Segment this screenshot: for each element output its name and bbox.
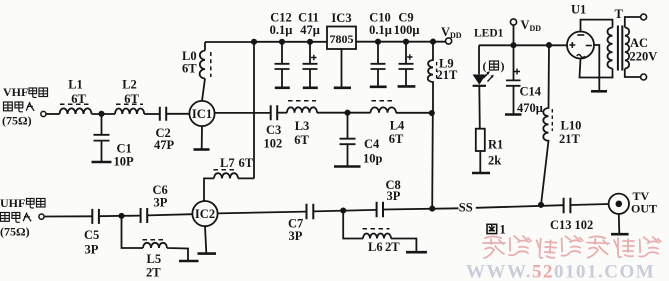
polarity plus C14 [514,69,520,75]
wire C2 to IC1 [167,113,190,115]
svg-text:3P: 3P [387,189,401,203]
svg-text:6T: 6T [71,92,86,106]
capacitor C12 [275,42,290,87]
wire VDD down [513,25,515,45]
svg-text:10p: 10p [363,152,383,166]
svg-text:V: V [521,18,530,32]
U1 plus left [569,42,575,48]
svg-text:470μ: 470μ [517,101,543,115]
ground C12 [275,87,290,90]
inductor L1 [60,108,92,114]
capacitor C6 [141,208,148,223]
junction rail L9 [430,39,436,45]
ground C9 [398,85,416,88]
svg-text:AC: AC [630,36,648,50]
capacitor C1 [94,114,110,161]
U1 minus right [586,45,592,47]
wire IC2 out to C7 [218,212,306,214]
junction node A [98,111,104,117]
op-amp IC2 [192,201,217,226]
wire T primary top [625,17,641,28]
watermark hanzi [483,235,661,258]
inductor L10 [541,45,549,205]
svg-text:VHF: VHF [3,85,28,99]
svg-text:C1: C1 [117,142,132,156]
svg-text:2T: 2T [385,240,400,254]
junction rail C10 [375,39,381,45]
svg-text:102: 102 [575,218,594,232]
node VHF input terminal [41,111,46,116]
svg-text:1: 1 [500,223,506,237]
svg-text:L2: L2 [122,78,137,92]
svg-text:L6: L6 [368,240,383,254]
wire C8 to SS [384,208,459,209]
svg-text:3P: 3P [154,196,168,210]
ground TV out [611,233,629,236]
svg-text:(75Ω): (75Ω) [2,114,32,128]
wire power rail [205,41,446,43]
wire L1 to node A [92,113,116,115]
svg-text:0.1μ: 0.1μ [270,23,293,37]
svg-text:3P: 3P [289,229,303,243]
svg-text:6T: 6T [239,156,254,170]
polarity plus C11 [311,55,316,60]
wire TV out gnd [618,214,621,233]
wire IC1 out to C3 [215,112,270,114]
connector TV OUT [609,194,629,214]
svg-text:102: 102 [264,137,283,151]
svg-text:L10: L10 [561,119,582,133]
wire T primary bottom [625,69,641,78]
node VDD terminal 1 [446,38,452,44]
capacitor C14 [506,45,521,113]
transformer T core [618,26,622,71]
caption Fig 1 [487,224,497,233]
wire C7 to C8 [314,210,376,212]
wire LED rail [479,44,567,46]
svg-text:DD: DD [450,31,462,40]
svg-text:C4: C4 [364,137,380,151]
inductor L3 [287,107,317,112]
svg-text:C14: C14 [520,85,542,99]
wire IC2 bottom [205,226,206,252]
wire L3 to L4 [317,112,371,114]
svg-text:220V: 220V [630,49,658,63]
ground L6 [406,251,427,254]
polarity plus C9 [407,54,412,59]
svg-text:L5: L5 [147,252,162,266]
svg-text:IC2: IC2 [195,207,215,221]
junction U1 node [546,42,552,48]
ground R1 [472,172,490,175]
capacitor C7 [307,204,314,220]
wire IC1 top to L0 [202,79,205,101]
transformer T primary [625,28,629,69]
node AC terminal bottom [641,74,647,80]
ground C11 [303,87,318,90]
svg-text:6T: 6T [182,62,197,76]
svg-text:2T: 2T [146,266,161,280]
capacitor C4 [340,113,356,166]
wire C5 to C6 [100,215,141,218]
svg-text:UHF: UHF [0,196,25,210]
wire VHF in to L1 [46,113,60,115]
svg-text:(: ( [483,59,487,73]
junction node F [429,206,435,212]
core dash L0 [210,52,212,77]
wire C13 to TV out [571,204,609,205]
node AC terminal top [641,14,647,20]
svg-text:L1: L1 [68,78,83,92]
svg-text:U1: U1 [571,3,586,17]
svg-text:L4: L4 [390,119,405,133]
node UHF input terminal [39,214,44,219]
junction rail C12 [279,39,285,45]
core dash L9 [436,62,438,80]
LED arrows [484,72,494,81]
wire L2 to C2 [144,113,159,115]
svg-text:(75Ω): (75Ω) [0,225,30,239]
op-amp IC1 [189,101,214,126]
inductor L7 [204,173,254,201]
junction node G [538,202,544,208]
ground C4 [334,165,361,168]
ground L5 [179,260,199,263]
U1 tilde bottom [577,55,585,58]
svg-text:21T: 21T [559,132,581,146]
wire bias feed vertical [253,42,255,179]
ground C10 [370,86,387,89]
svg-text:21T: 21T [437,68,459,82]
regulator IC3 7805 [327,27,356,50]
rectifier U1 [567,32,594,59]
svg-text:2k: 2k [488,154,501,168]
inductor L5 [122,216,189,260]
core dash L7 [214,169,237,171]
ground C14 [505,113,522,116]
wire L4 to L9 line [396,112,432,114]
wire U1 top to T [581,20,613,32]
svg-text:DD: DD [530,24,542,33]
core dash L3 [288,100,316,102]
inductor L9 [428,42,433,113]
core dash L2 [116,103,143,105]
ground IC1 [194,148,210,151]
junction node D [118,213,124,219]
capacitor C11 [303,42,318,87]
resistor R1 [476,129,485,151]
svg-text:V: V [441,25,450,39]
svg-text:47P: 47P [154,138,175,152]
core dash L4 [372,100,396,102]
svg-text:L7: L7 [220,156,235,170]
core dash L5 [143,239,166,241]
svg-text:3P: 3P [85,242,99,256]
transformer T secondary [608,28,613,69]
capacitor C9 [399,42,414,86]
junction node C [429,110,435,116]
svg-text:LED1: LED1 [474,27,504,39]
svg-text:L3: L3 [295,119,310,133]
svg-text:6T: 6T [389,132,404,146]
U1 minus top [577,34,584,36]
ground U1 [591,90,607,93]
node VDD terminal 2 [510,19,516,25]
svg-text:6T: 6T [124,92,139,106]
ground IC2 [198,252,217,255]
wire SS to C13 [476,205,563,208]
wire U1 bottom to T [580,59,613,78]
wire L9 down to SS line [431,113,434,209]
LED LED1 [478,45,480,74]
svg-text:0.1μ: 0.1μ [369,23,392,37]
capacitor C8 [377,202,383,218]
svg-text:): ) [501,59,505,73]
wire UHF in to C5 [44,215,92,217]
svg-text:SS: SS [459,200,473,214]
wire IC1 bottom [201,126,203,148]
svg-text:R1: R1 [488,137,503,151]
wire C6 to IC2 [148,214,193,215]
inductor L0 [200,42,205,79]
inductor L6 [343,211,416,252]
ground C1 [92,161,112,164]
capacitor C13 [564,198,571,214]
svg-text:OUT: OUT [631,202,657,216]
svg-text:C3: C3 [266,123,281,137]
capacitor C10 [371,42,386,86]
svg-text:6T: 6T [294,133,309,147]
svg-text:C5: C5 [84,228,99,242]
svg-text:IC1: IC1 [192,107,212,121]
svg-text:10P: 10P [114,155,135,169]
svg-text:7805: 7805 [330,32,354,46]
core dash L10 [551,109,553,131]
inductor L4 [371,107,397,112]
junction node E [340,207,346,213]
junction rail-L0 feed [251,39,257,45]
junction rail C11 [307,39,313,45]
svg-text:T: T [615,7,624,21]
core dash L1 [60,103,91,105]
wire C3 to L3 [278,112,287,114]
junction rail C9 [403,39,409,45]
capacitor C3 [271,105,278,120]
inductor L2 [115,109,144,114]
core dash L6 [363,228,390,230]
svg-text:100μ: 100μ [394,23,420,37]
capacitor C2 [160,107,166,121]
junction node B [344,110,350,116]
pin IC3 gnd [341,49,343,87]
capacitor C5 [92,209,99,224]
wire R1 gnd [479,151,481,172]
svg-text:C13: C13 [550,218,572,232]
svg-text:IC3: IC3 [331,11,351,25]
wire U1 right gnd [594,45,599,90]
ground IC3 [334,87,351,90]
junction VDD node [510,42,516,48]
svg-text:WWW.520101.COM: WWW.520101.COM [466,262,655,281]
svg-text:47μ: 47μ [300,23,320,37]
